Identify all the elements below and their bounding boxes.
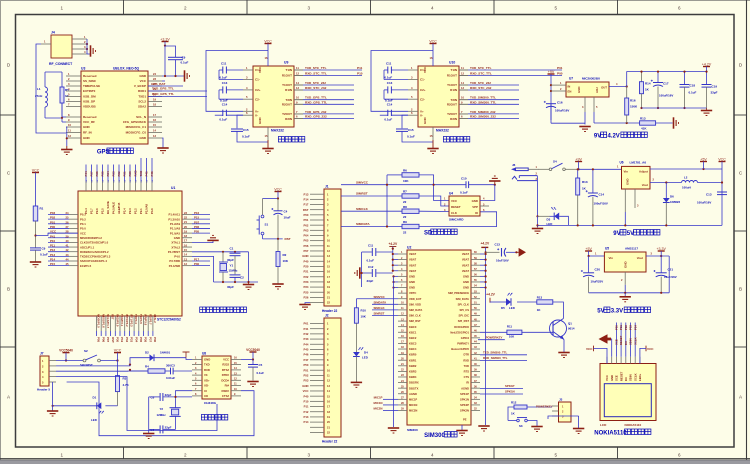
svg-text:4.2V: 4.2V — [607, 134, 619, 140]
svg-text:P21: P21 — [619, 325, 623, 330]
svg-text:P2.4: P2.4 — [123, 208, 127, 214]
svg-text:GND: GND — [463, 280, 469, 284]
svg-text:SPK2P: SPK2P — [460, 403, 469, 407]
switch S4 — [538, 168, 549, 170]
svg-text:CTS: CTS — [464, 375, 470, 379]
svg-text:GND: GND — [258, 117, 262, 125]
svg-text:T2IN: T2IN — [450, 98, 457, 102]
svg-text:P0.2: P0.2 — [80, 217, 86, 221]
svg-text:SIMCLK: SIMCLK — [374, 306, 386, 310]
svg-text:2: 2 — [184, 6, 187, 11]
wire GND rows to long rail — [394, 275, 399, 277]
ic U2 SIM300 — [407, 250, 471, 425]
wire crystal bottom rail — [214, 281, 259, 283]
svg-text:DCD#: DCD# — [221, 378, 229, 382]
svg-text:P43: P43 — [304, 337, 309, 341]
svg-text:15: 15 — [430, 134, 433, 138]
svg-text:43: 43 — [66, 253, 69, 257]
svg-text:15: 15 — [265, 134, 268, 138]
wire R9 to IO pin — [419, 212, 497, 227]
svg-text:GND: GND — [610, 375, 614, 381]
svg-text:33pF: 33pF — [711, 90, 718, 94]
svg-text:P32: P32 — [125, 337, 129, 343]
svg-text:P06: P06 — [304, 244, 309, 248]
wire to capacitor C9 — [165, 46, 176, 57]
svg-text:Reserved: Reserved — [83, 74, 97, 78]
svg-text:22: 22 — [403, 200, 407, 204]
ic U8 CH340G usb uart — [202, 356, 231, 399]
svg-text:P2.7: P2.7 — [90, 208, 94, 214]
svg-text:P03: P03 — [304, 228, 309, 232]
svg-text:INT1/P3.3: INT1/P3.3 — [130, 314, 134, 327]
svg-text:R1IN: R1IN — [450, 88, 457, 92]
svg-text:SIMRST: SIMRST — [356, 192, 368, 196]
svg-text:0.1uF: 0.1uF — [384, 75, 392, 79]
svg-text:+5V: +5V — [700, 157, 707, 161]
svg-text:100uF/16V: 100uF/16V — [555, 108, 569, 112]
ground at J4 — [87, 53, 90, 55]
svg-text:P40: P40 — [153, 337, 157, 343]
svg-text:C2-: C2- — [255, 97, 260, 101]
svg-text:GND: GND — [409, 274, 415, 278]
svg-text:P53: P53 — [304, 379, 309, 383]
svg-text:100uF/16V: 100uF/16V — [697, 200, 711, 204]
svg-text:J6: J6 — [512, 163, 516, 167]
wires above U1 top right — [140, 158, 142, 165]
svg-text:INT0/P3.2: INT0/P3.2 — [125, 314, 129, 327]
svg-text:KBR4: KBR4 — [409, 375, 417, 379]
svg-text:TXD_STC_TTL: TXD_STC_TTL — [470, 66, 492, 70]
svg-text:CLK: CLK — [451, 211, 458, 215]
lcd glass — [604, 384, 651, 417]
inverted ground above C10 right — [494, 181, 496, 185]
svg-text:VRTC: VRTC — [409, 291, 416, 295]
svg-text:C20: C20 — [595, 267, 601, 271]
ic U4 SIMCARD socket — [449, 196, 480, 216]
led D4 — [355, 323, 357, 352]
svg-text:22: 22 — [184, 215, 187, 219]
svg-text:GND: GND — [83, 136, 91, 140]
svg-text:C12: C12 — [368, 265, 374, 269]
svg-text:P11: P11 — [357, 66, 363, 70]
svg-text:19: 19 — [153, 98, 156, 102]
svg-text:P0.0: P0.0 — [80, 227, 86, 231]
svg-text:J1: J1 — [325, 185, 329, 189]
svg-text:5: 5 — [554, 6, 557, 11]
svg-text:L1: L1 — [37, 87, 41, 91]
capacitor C @U9 3 — [222, 110, 224, 116]
U7 ground pin 3 — [584, 97, 586, 112]
capacitor C2 30pF — [230, 274, 241, 276]
svg-text:SIM_DATA: SIM_DATA — [409, 308, 422, 312]
U8 left pins — [192, 359, 202, 361]
svg-text:IN: IN — [568, 84, 571, 88]
svg-text:T2OUT: T2OUT — [282, 112, 292, 116]
grounds below U2 — [461, 425, 463, 430]
svg-text:150K: 150K — [630, 105, 638, 109]
U7 adj pin 5 — [593, 97, 595, 112]
capacitor C17 100uF/16V — [657, 72, 659, 83]
svg-text:P20: P20 — [304, 265, 309, 269]
svg-text:22: 22 — [403, 231, 407, 235]
svg-text:KBC0: KBC0 — [409, 325, 417, 329]
power tap above D2 — [183, 351, 190, 353]
svg-text:SIM_CLK: SIM_CLK — [409, 314, 421, 318]
svg-text:C13: C13 — [495, 242, 501, 246]
svg-text:P01: P01 — [304, 322, 309, 326]
svg-text:R1IN: R1IN — [285, 88, 292, 92]
svg-text:100uH: 100uH — [682, 185, 691, 189]
svg-text:Adjust: Adjust — [639, 170, 648, 174]
capacitor C4 10uF electrolytic — [277, 199, 279, 211]
svg-text:P17: P17 — [304, 203, 309, 207]
svg-text:S4: S4 — [553, 159, 557, 163]
ic U1 STC12C5A60S2 MCU — [78, 191, 182, 316]
svg-text:1N5822: 1N5822 — [670, 200, 681, 204]
svg-text:RXD_GPS_232: RXD_GPS_232 — [305, 115, 327, 119]
net label RXD_SIM300_TTL — [480, 359, 527, 361]
svg-text:SCE: SCE — [615, 375, 619, 381]
svg-text:P3.7/RD: P3.7/RD — [169, 259, 180, 263]
svg-text:C2+: C2+ — [255, 88, 261, 92]
svg-text:+3.3V: +3.3V — [656, 247, 666, 251]
svg-text:+9V: +9V — [548, 70, 555, 74]
svg-text:9V: 9V — [613, 231, 620, 237]
svg-text:P45: P45 — [304, 348, 309, 352]
svg-text:P07: P07 — [304, 249, 309, 253]
svg-text:RESET: RESET — [451, 205, 461, 209]
svg-text:Reserved: Reserved — [83, 115, 97, 119]
svg-text:VCC: VCC — [264, 39, 272, 43]
wires above lcd — [615, 323, 617, 357]
svg-text:P13: P13 — [50, 253, 56, 257]
svg-text:R8: R8 — [403, 205, 407, 209]
svg-text:C3: C3 — [171, 364, 175, 368]
svg-text:U6: U6 — [620, 160, 624, 164]
wire nest D — [67, 382, 254, 436]
svg-text:1N4001: 1N4001 — [160, 350, 171, 354]
U7 input pins — [551, 84, 566, 86]
wire U4 GND pin to rail — [480, 185, 495, 201]
svg-text:10: 10 — [68, 123, 71, 127]
resistor R9 22 — [402, 224, 419, 228]
svg-text:P04: P04 — [304, 234, 309, 238]
svg-text:SPI_D/C: SPI_D/C — [459, 314, 470, 318]
svg-text:RESET: RESET — [619, 335, 623, 345]
wire left rail SIM — [386, 175, 388, 227]
capacitor C14b 100uF/16V — [592, 169, 594, 193]
wire U8 vcc — [241, 359, 253, 361]
svg-text:P4.7/RST: P4.7/RST — [168, 250, 180, 254]
ground right of R13 — [673, 117, 675, 128]
capacitor C10 0.1uF — [465, 181, 467, 188]
wire output to +4.2V rail — [627, 72, 707, 87]
svg-text:NOKIA5110: NOKIA5110 — [625, 423, 642, 427]
svg-text:VBAT: VBAT — [409, 252, 416, 256]
svg-text:C2-: C2- — [420, 97, 425, 101]
crystal Y2 12MHz — [176, 391, 193, 408]
svg-text:Vin: Vin — [609, 256, 614, 260]
svg-text:P23: P23 — [112, 171, 116, 177]
svg-text:R2OUT: R2OUT — [447, 103, 457, 107]
wire L1-R5 top — [45, 71, 62, 73]
svg-text:SPI_CS: SPI_CS — [459, 308, 469, 312]
svg-text:Vout: Vout — [642, 183, 648, 187]
wire SIMVCC row — [341, 184, 466, 186]
svg-text:P10: P10 — [50, 239, 56, 243]
svg-text:SPI_RST: SPI_RST — [458, 319, 470, 323]
svg-text:R232: R232 — [222, 363, 229, 367]
led D1 — [105, 405, 117, 407]
resistor R5 — [61, 72, 63, 87]
svg-text:R13: R13 — [537, 295, 543, 299]
svg-text:VBAT: VBAT — [409, 258, 416, 262]
svg-text:14: 14 — [153, 129, 156, 133]
svg-text:MISO/CFG_C1: MISO/CFG_C1 — [126, 125, 147, 129]
wire R13 to Q1 collector — [553, 302, 564, 319]
svg-text:Header 22: Header 22 — [322, 309, 337, 313]
svg-text:P4.1/WR: P4.1/WR — [169, 264, 180, 268]
svg-text:CH340G: CH340G — [204, 401, 217, 405]
svg-text:15: 15 — [153, 123, 156, 127]
svg-text:VCC5040: VCC5040 — [246, 348, 260, 352]
svg-text:C13: C13 — [222, 81, 228, 85]
svg-text:U2: U2 — [407, 245, 411, 249]
capacitor C11b 0.1uF — [362, 251, 372, 253]
svg-text:C6: C6 — [150, 395, 154, 399]
svg-text:42: 42 — [66, 248, 69, 252]
svg-text:P1.1/A8: P1.1/A8 — [170, 227, 181, 231]
svg-text:P26: P26 — [304, 296, 309, 300]
svg-text:U8: U8 — [202, 352, 206, 356]
svg-text:P1.0/A5: P1.0/A5 — [170, 231, 181, 235]
svg-text:VCC: VCC — [451, 199, 458, 203]
svg-text:C2: C2 — [240, 275, 244, 279]
svg-text:T1OUT: T1OUT — [282, 83, 292, 87]
svg-text:P00: P00 — [304, 213, 309, 217]
wire right vertical — [721, 169, 723, 225]
U3 left pins group 2 — [66, 116, 81, 118]
ground below crystal — [143, 433, 154, 435]
resistor R4 300 — [130, 370, 148, 371]
svg-text:P0.1: P0.1 — [80, 222, 86, 226]
svg-text:SIM_DATA: SIM_DATA — [456, 297, 469, 301]
svg-text:24: 24 — [66, 211, 69, 215]
svg-text:AMS1117: AMS1117 — [625, 247, 638, 251]
U10 right pins — [459, 69, 468, 71]
svg-text:P40: P40 — [304, 394, 309, 398]
capacitor C @U9 2 — [219, 89, 223, 91]
svg-text:R11: R11 — [507, 325, 513, 329]
svg-text:0.1uF: 0.1uF — [407, 134, 415, 138]
wire XTAL2 row — [192, 256, 214, 282]
capacitor C13c 100uF/16V — [717, 191, 727, 193]
svg-text:C1-: C1- — [255, 78, 260, 82]
svg-text:VBAT: VBAT — [462, 269, 469, 273]
svg-text:+4.2V: +4.2V — [486, 292, 496, 296]
svg-text:9V: 9V — [594, 134, 601, 140]
U2 right pins — [471, 253, 480, 255]
svg-text:C14: C14 — [222, 103, 228, 107]
svg-text:TXD_SIM300_TTL: TXD_SIM300_TTL — [470, 96, 496, 100]
svg-text:+3.3V: +3.3V — [160, 37, 170, 41]
wire J4 to RF_IN — [36, 44, 66, 133]
wire bottom rail 4.2V — [642, 107, 707, 109]
svg-text:RTS#: RTS# — [222, 368, 230, 372]
net labels SPK — [480, 387, 523, 389]
svg-text:P4.6: P4.6 — [150, 208, 154, 214]
junction dots J4 — [86, 43, 88, 45]
wire VBAT rows left — [393, 253, 398, 255]
svg-text:VCC: VCC — [223, 358, 229, 362]
svg-text:18: 18 — [184, 234, 187, 238]
resistor R2 10K — [277, 239, 279, 252]
svg-text:VCC: VCC — [258, 66, 262, 73]
svg-text:C15: C15 — [408, 128, 414, 132]
capacitor C19 33pF — [706, 72, 708, 85]
svg-text:22pF: 22pF — [165, 393, 172, 397]
svg-text:P06: P06 — [101, 337, 105, 343]
svg-text:GND: GND — [139, 136, 147, 140]
svg-text:SIMDATA: SIMDATA — [356, 222, 370, 226]
svg-text:P20: P20 — [128, 171, 132, 177]
svg-text:17: 17 — [153, 113, 156, 117]
svg-text:23: 23 — [184, 211, 187, 215]
svg-text:DCD/GPIO0: DCD/GPIO0 — [454, 325, 469, 329]
svg-text:TXD_STC_232: TXD_STC_232 — [305, 81, 326, 85]
svg-text:SCLK: SCLK — [633, 337, 637, 345]
svg-text:30pF: 30pF — [227, 285, 234, 289]
net label TXD_SIM300_TTL — [480, 354, 527, 356]
resistor R12 1K — [514, 405, 527, 409]
ground U9 — [267, 127, 269, 140]
wire Q1 emitter to ground — [563, 340, 565, 353]
svg-text:P41: P41 — [304, 327, 309, 331]
svg-text:P03: P03 — [50, 211, 56, 215]
svg-text:SIM300: SIM300 — [407, 428, 418, 432]
svg-text:P36: P36 — [144, 337, 148, 343]
svg-text:RXD_SIM300_232: RXD_SIM300_232 — [470, 115, 496, 119]
svg-text:MOSI/CFG_C0: MOSI/CFG_C0 — [126, 131, 147, 135]
regulator U7 MIC29302BU — [566, 82, 609, 97]
svg-text:0.01uF: 0.01uF — [166, 376, 175, 380]
resistor R13 1K — [537, 300, 553, 304]
svg-text:OUT: OUT — [601, 85, 607, 89]
svg-text:21: 21 — [184, 220, 187, 224]
ground below C5 — [247, 381, 258, 383]
U10 right side wires and net labels — [468, 69, 562, 71]
svg-text:P16: P16 — [194, 211, 200, 215]
capacitor C3 0.01uF — [165, 370, 171, 372]
svg-text:J3: J3 — [559, 398, 563, 402]
svg-text:SCL_N: SCL_N — [136, 115, 146, 119]
svg-text:U7: U7 — [569, 77, 573, 81]
ground below D4 — [351, 381, 362, 383]
svg-text:LCD: LCD — [600, 423, 607, 427]
wire jack common — [536, 176, 538, 181]
svg-text:RXD_GPS_TTL: RXD_GPS_TTL — [305, 100, 327, 104]
wire J7 pin5 down — [52, 382, 54, 406]
svg-text:P2.6: P2.6 — [95, 208, 99, 214]
wire ldo ground rail — [589, 292, 670, 294]
svg-text:P30: P30 — [194, 262, 200, 266]
svg-text:R1: R1 — [40, 207, 44, 211]
svg-text:16: 16 — [265, 56, 268, 60]
svg-text:P50: P50 — [304, 363, 309, 367]
svg-text:SIMVCC: SIMVCC — [374, 295, 386, 299]
ground below rail left — [388, 427, 399, 429]
svg-text:P14: P14 — [50, 258, 56, 262]
resistor R13 41K — [640, 121, 656, 125]
svg-text:RX_SAVE: RX_SAVE — [106, 201, 110, 214]
svg-text:P13: P13 — [304, 192, 309, 196]
svg-text:VBAT: VBAT — [462, 263, 469, 267]
svg-text:SIM300: SIM300 — [424, 433, 445, 439]
svg-text:GND: GND — [139, 74, 147, 78]
svg-text:41: 41 — [66, 244, 69, 248]
capacitor C15 U10 — [402, 115, 408, 128]
ground below U3 left — [61, 149, 72, 151]
svg-text:RST: RST — [111, 337, 115, 343]
svg-text:P0.3: P0.3 — [80, 213, 86, 217]
wire SIMDATA row — [341, 226, 402, 228]
svg-text:0.1uF: 0.1uF — [460, 190, 468, 194]
svg-text:VCC: VCC — [605, 375, 609, 381]
svg-text:10: 10 — [461, 96, 464, 100]
svg-text:LED+: LED+ — [638, 373, 642, 381]
wire R8 to CLK pin — [419, 210, 449, 212]
U3 right pins group 2 — [148, 116, 162, 118]
svg-text:UD-: UD- — [204, 384, 209, 388]
svg-text:P35: P35 — [139, 337, 143, 343]
zener D6 1N5822 — [665, 183, 667, 199]
svg-text:U4: U4 — [449, 192, 453, 196]
svg-text:10uF: 10uF — [284, 215, 291, 219]
svg-text:TXD_STC_TTL: TXD_STC_TTL — [305, 66, 327, 70]
svg-text:44: 44 — [66, 258, 69, 262]
ground below J3 — [573, 428, 584, 430]
resistor R6 10K — [387, 174, 402, 176]
svg-text:GND: GND — [577, 87, 581, 93]
svg-text:C1-: C1- — [420, 78, 425, 82]
svg-text:STC12C5A60S2: STC12C5A60S2 — [157, 317, 181, 321]
svg-text:P44: P44 — [84, 171, 88, 177]
svg-text:20: 20 — [184, 225, 187, 229]
svg-text:TXD: TXD — [139, 171, 143, 177]
svg-text:Header 22: Header 22 — [322, 440, 337, 444]
resistor R7 22 — [402, 194, 419, 198]
svg-text:P46: P46 — [150, 171, 154, 177]
svg-text:L2: L2 — [684, 175, 688, 179]
svg-text:VBAT: VBAT — [409, 263, 416, 267]
svg-text:RXD_STC_232: RXD_STC_232 — [470, 86, 492, 90]
svg-text:TXD: TXD — [464, 364, 469, 368]
svg-text:TXD_SIM300_TTL: TXD_SIM300_TTL — [483, 350, 507, 354]
svg-text:Vout: Vout — [637, 256, 643, 260]
wire XTAL1 row — [192, 251, 249, 253]
svg-text:SPK1P: SPK1P — [505, 384, 515, 388]
svg-text:XI: XI — [204, 389, 207, 393]
svg-text:VCC5040: VCC5040 — [59, 348, 73, 352]
svg-text:16: 16 — [153, 118, 156, 122]
svg-text:VPP: VPP — [472, 205, 478, 209]
ground below rail — [706, 108, 708, 110]
resistor R13b 1K — [577, 169, 579, 178]
svg-text:SPK1N: SPK1N — [505, 390, 515, 394]
svg-text:GND: GND — [204, 358, 210, 362]
U3 left pins group 1 — [66, 75, 81, 77]
svg-text:5V: 5V — [627, 231, 634, 237]
